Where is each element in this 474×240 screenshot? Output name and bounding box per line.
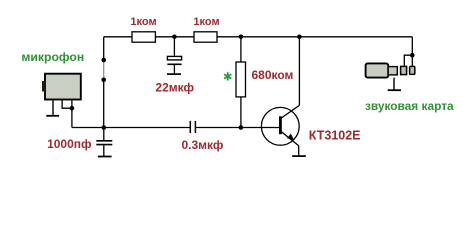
transistor Q1: emitter arrowhead xyxy=(287,134,294,141)
capacitor C3 0.3мкф: right plate xyxy=(194,121,196,133)
node: dot upper on left vertical xyxy=(101,58,106,63)
wire: lead to C2 xyxy=(103,128,105,141)
wire: lower black segment of left vertical xyxy=(103,80,105,128)
wire: bottom rail right segment (C3 to base) xyxy=(195,127,280,129)
wire: mic left pin down xyxy=(52,100,54,116)
svg-text:0.3мкф: 0.3мкф xyxy=(181,138,223,152)
capacitor C1 22мкф electrolytic: top plate (hollow) xyxy=(167,56,181,60)
ground: bar under jack xyxy=(388,89,401,91)
transistor Q1: collector diagonal xyxy=(281,105,300,118)
capacitor C1 22мкф: bottom plate xyxy=(167,63,181,65)
node: junction bottom rail / C2 1000пф xyxy=(102,125,107,130)
ground: bar under emitter xyxy=(292,155,306,157)
node: junction R1/R2 and C 22мкф xyxy=(172,35,177,40)
wire: lead from top rail to 22мкф xyxy=(173,37,175,57)
wire: grey middle segment of left vertical xyxy=(103,60,105,80)
wire: left vertical from top rail down to bottom rail xyxy=(103,37,105,60)
wire: jack sleeve to ground xyxy=(393,78,395,90)
wire: lead from C1 down to common xyxy=(173,64,175,74)
connector XS1: plug neck xyxy=(388,67,397,75)
capacitor C2 1000пф: top plate xyxy=(96,140,112,142)
microphone BM1: left contact xyxy=(42,81,46,92)
resistor R3 680ком (vertical) xyxy=(236,62,246,97)
node: junction top rail / collector xyxy=(297,35,302,40)
svg-text:микрофон: микрофон xyxy=(21,50,84,64)
node: junction top rail / R3 680ком xyxy=(239,35,244,40)
connector XS1: ring segment xyxy=(401,66,407,74)
svg-text:1ком: 1ком xyxy=(130,16,156,28)
wire: lead from C2 to ground xyxy=(103,145,105,157)
wire: lead from R3 to base wire xyxy=(240,97,242,128)
svg-text:звуковая карта: звуковая карта xyxy=(365,99,454,113)
wire: mic output tab xyxy=(62,100,72,109)
wire: collector vertical xyxy=(298,37,300,106)
svg-text:22мкф: 22мкф xyxy=(155,81,194,95)
resistor R2 1ком xyxy=(194,32,217,42)
ground: bar under C1 xyxy=(167,73,181,75)
ground: bar under C2 xyxy=(98,156,112,158)
capacitor C3 0.3мкф: left plate xyxy=(189,121,191,133)
resistor R1 1ком xyxy=(132,32,155,42)
label: selection asterisk (green star) xyxy=(225,73,231,80)
connector XS1: plug body xyxy=(366,63,389,77)
node: junction R3 / base wire xyxy=(239,125,244,130)
transistor Q1 КТ3102Е: circle xyxy=(261,107,299,145)
capacitor C2 1000пф: bottom plate xyxy=(96,144,112,146)
wire: emitter down xyxy=(298,146,300,156)
wire: right vertical from top rail to jack xyxy=(411,37,413,55)
svg-text:1ком: 1ком xyxy=(193,16,219,28)
wire: branch to ring xyxy=(404,55,412,66)
transistor Q1: emitter diagonal xyxy=(281,131,299,146)
svg-text:КТ3102Е: КТ3102Е xyxy=(309,128,361,142)
connector XS1: tip segment xyxy=(410,66,415,74)
node: mic output junction xyxy=(70,106,75,111)
wire: mic output down to bottom rail xyxy=(71,108,73,127)
wire: lead from top rail to R3 xyxy=(240,37,242,62)
node: jack signal junction xyxy=(410,53,415,58)
ground: bar under mic xyxy=(46,115,59,117)
wire: branch to tip xyxy=(411,55,413,66)
node: dot lower on left vertical xyxy=(101,78,106,83)
wire: top supply rail xyxy=(104,36,413,38)
wire: bottom rail left segment (mic to C3) xyxy=(72,127,190,129)
svg-text:680ком: 680ком xyxy=(252,68,294,82)
transistor Q1: base bar xyxy=(279,116,282,134)
svg-text:1000пф: 1000пф xyxy=(47,137,92,151)
microphone BM1: body xyxy=(45,74,81,100)
